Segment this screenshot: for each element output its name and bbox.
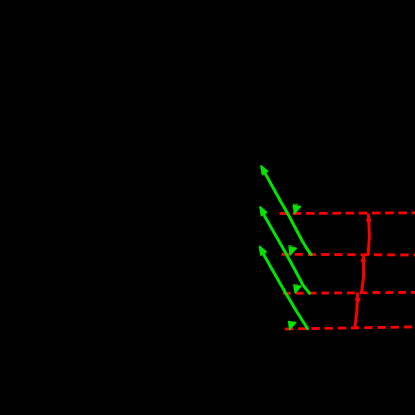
- small green arrowhead above line 2: [289, 247, 296, 255]
- red interval arrow 3 head: [355, 294, 361, 303]
- green ray arrow C shaft: [262, 252, 308, 329]
- faint tick above small arrowhead 3: [293, 284, 298, 286]
- red interval arrow 2 head: [361, 256, 367, 265]
- small green arrowhead above line 4: [289, 322, 296, 330]
- dashed level line 1: [280, 211, 415, 214]
- green ray arrow A shaft: [263, 170, 311, 255]
- small green arrowhead above line 1: [293, 205, 300, 213]
- dashed level line 3: [283, 291, 415, 295]
- red interval arrow 1 head: [366, 215, 372, 224]
- dashed level line 2: [282, 253, 415, 256]
- green ray arrow A head: [261, 166, 268, 175]
- small green arrowhead above line 3: [294, 285, 301, 293]
- green ray arrow B head: [260, 207, 267, 216]
- red interval arrow 2 shaft: [362, 255, 364, 293]
- dashed level line 4: [285, 327, 415, 329]
- green ray arrow B shaft: [262, 212, 310, 294]
- faint tick above small arrowhead 1: [293, 203, 299, 205]
- red interval arrow 3 shaft: [355, 294, 358, 328]
- green ray arrow C head: [260, 246, 267, 255]
- faint tick above small arrowhead 2: [288, 245, 292, 247]
- red interval arrow 1 shaft: [368, 215, 369, 254]
